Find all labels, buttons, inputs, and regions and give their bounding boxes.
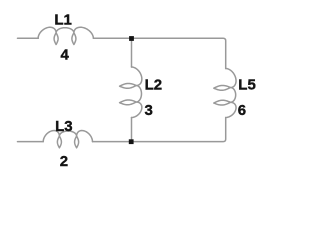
svg-text:L3: L3: [55, 118, 73, 135]
wire bottom-left lead: [18, 141, 44, 143]
inductor L3: [43, 131, 92, 148]
node top junction: [129, 36, 134, 41]
svg-text:4: 4: [61, 47, 70, 64]
svg-text:L2: L2: [145, 76, 163, 93]
inductor L2: [120, 67, 142, 118]
svg-text:2: 2: [60, 153, 68, 170]
wire middle vertical upper segment: [131, 39, 133, 68]
wire middle vertical lower segment: [131, 118, 133, 142]
wire top-left lead: [18, 37, 39, 39]
inductor L1: [38, 27, 93, 44]
svg-text:3: 3: [145, 102, 153, 119]
svg-text:L5: L5: [238, 76, 256, 93]
svg-text:6: 6: [238, 102, 246, 119]
inductor L5: [214, 69, 236, 118]
wire top from L1 to right corner: [93, 38, 225, 68]
node bottom junction: [129, 139, 134, 144]
svg-text:L1: L1: [54, 12, 72, 29]
wire right vertical lower segment: [93, 118, 226, 142]
